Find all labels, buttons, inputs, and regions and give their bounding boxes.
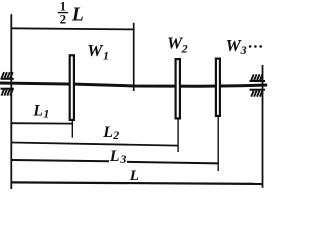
svg-text:L: L	[71, 5, 84, 26]
svg-text:3: 3	[240, 43, 247, 57]
extension line below W3	[217, 117, 219, 172]
right bearing upper surface	[250, 80, 266, 82]
svg-text:L: L	[32, 103, 42, 120]
dimension line L2	[11, 143, 178, 146]
svg-text:L: L	[129, 168, 139, 184]
svg-text:W: W	[87, 41, 104, 60]
shaft (main horizontal axle)	[0, 83, 267, 86]
dimension line L	[11, 182, 262, 184]
left bearing lower hatching	[2, 89, 13, 95]
left bearing upper surface	[1, 78, 14, 80]
svg-text:1: 1	[43, 107, 49, 121]
dimension line L3 (right segment)	[127, 162, 218, 164]
svg-text:2: 2	[60, 11, 67, 26]
node A: left support centerline / extension line	[10, 14, 12, 189]
ellipsis dots after W3	[249, 45, 262, 48]
node B: right support centerline / extension line	[262, 65, 264, 188]
left bearing upper hatching	[2, 72, 13, 78]
right bearing lower surface	[250, 89, 266, 91]
right bearing upper hatching	[251, 74, 262, 80]
svg-text:L: L	[102, 124, 113, 141]
extension line at mid-span (end of 1/2 L)	[133, 23, 135, 91]
extension line below W1	[71, 121, 73, 138]
dimension line 1/2 L	[11, 28, 133, 29]
svg-text:3: 3	[119, 152, 126, 166]
svg-text:L: L	[109, 148, 120, 165]
fraction bar of 1/2	[58, 12, 68, 14]
dimension line L1	[11, 122, 72, 124]
svg-text:1: 1	[103, 48, 109, 62]
disk W2	[176, 59, 180, 118]
disk W1	[70, 55, 74, 120]
svg-text:2: 2	[112, 128, 119, 142]
left bearing lower surface	[1, 88, 14, 90]
dimension line L3 (left segment)	[11, 160, 109, 161]
svg-text:2: 2	[181, 42, 188, 56]
extension line below W2	[177, 119, 179, 152]
right bearing lower hatching	[251, 91, 262, 97]
disk W3	[216, 59, 220, 116]
